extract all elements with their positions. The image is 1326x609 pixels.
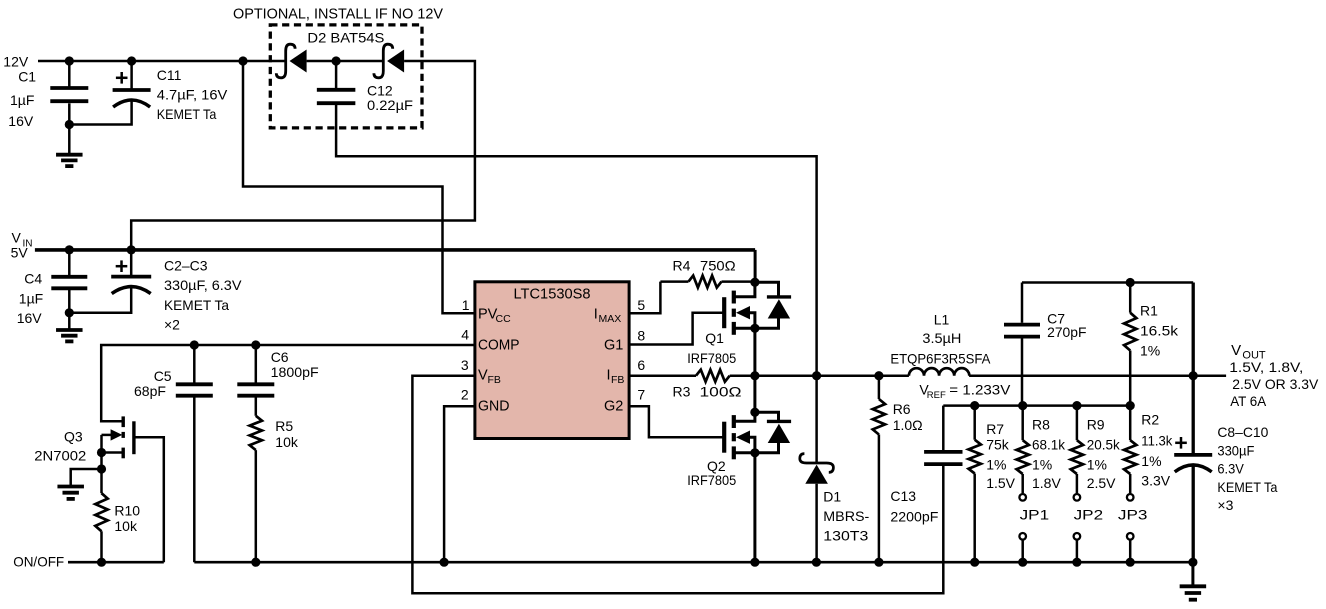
svg-text:11.3k: 11.3k (1141, 433, 1173, 449)
svg-text:1%: 1% (986, 457, 1006, 473)
svg-text:×2: ×2 (164, 317, 180, 333)
svg-text:1%: 1% (1032, 457, 1052, 473)
svg-text:2: 2 (461, 386, 469, 402)
node rail-R5 (251, 558, 260, 567)
svg-text:1.5V: 1.5V (986, 475, 1015, 491)
label LTC1530S8 (514, 287, 591, 303)
label C7 (1047, 311, 1086, 341)
svg-text:OPTIONAL, INSTALL IF NO 12V: OPTIONAL, INSTALL IF NO 12V (233, 7, 443, 23)
label D2 BAT54S (307, 30, 384, 46)
label C2-C3 (164, 258, 242, 333)
capacitor C7 (1004, 283, 1040, 406)
inductor L1 (909, 368, 969, 376)
label Q1 (687, 330, 736, 366)
svg-text:KEMET Ta: KEMET Ta (157, 106, 217, 122)
svg-text:20.5k: 20.5k (1087, 437, 1121, 453)
node switch-Q1Q2 (750, 371, 759, 380)
node 12V-PVcc junction (238, 56, 247, 65)
svg-text:MBRS-: MBRS- (823, 508, 869, 524)
label C6 (271, 349, 319, 380)
svg-text:KEMET Ta: KEMET Ta (1217, 479, 1277, 495)
svg-text:GND: GND (478, 399, 510, 415)
svg-text:FB: FB (488, 374, 501, 386)
label ON/OFF (13, 554, 64, 570)
svg-text:1.8V: 1.8V (1032, 475, 1061, 491)
svg-text:270pF: 270pF (1047, 324, 1086, 340)
svg-text:C2–C3: C2–C3 (164, 258, 208, 274)
pin 7 label (637, 386, 645, 402)
node rail-JP2 (1072, 558, 1081, 567)
wire VIN 5V rail (35, 250, 755, 283)
node VIN-C4 junction (65, 245, 74, 254)
svg-text:R1: R1 (1140, 303, 1158, 319)
svg-text:100Ω: 100Ω (700, 384, 742, 400)
diode D2a (left schottky) (276, 44, 306, 78)
ground under C4 (56, 313, 83, 342)
svg-text:1µF: 1µF (10, 92, 34, 108)
svg-text:1800pF: 1800pF (271, 364, 319, 380)
label R7 (986, 421, 1015, 491)
svg-text:3.3V: 3.3V (1141, 473, 1170, 489)
label C5 (134, 368, 172, 399)
svg-text:R8: R8 (1032, 417, 1050, 433)
svg-text:C8–C10: C8–C10 (1217, 424, 1268, 440)
svg-text:R7: R7 (986, 421, 1004, 437)
capacitor C4 (51, 250, 87, 314)
svg-text:COMP: COMP (478, 338, 520, 354)
wire IFB pin 6 (630, 374, 697, 377)
wire G1 pin 8 (630, 313, 724, 345)
svg-text:1%: 1% (1141, 453, 1161, 469)
wire G2 pin 7 (630, 406, 724, 437)
svg-text:C6: C6 (271, 349, 289, 365)
svg-text:V: V (1231, 342, 1241, 359)
node rail-R6 (874, 558, 883, 567)
wire 12V to PVCC pin 1 (243, 61, 476, 313)
svg-text:I: I (607, 368, 611, 384)
svg-text:I: I (594, 307, 598, 323)
svg-text:1.0Ω: 1.0Ω (893, 417, 923, 433)
node divider-R7 (970, 401, 979, 410)
capacitor C5 (176, 345, 213, 562)
svg-text:16V: 16V (8, 113, 34, 129)
node switch-R6 (874, 371, 883, 380)
svg-text:L1: L1 (934, 312, 950, 328)
svg-text:7: 7 (637, 386, 645, 402)
svg-text:1: 1 (462, 297, 470, 313)
svg-text:2N7002: 2N7002 (34, 448, 86, 464)
node divider-R9 (1072, 401, 1081, 410)
wire Q3 gate to ON/OFF (134, 437, 164, 562)
pin 1 label (462, 297, 470, 313)
label R3 (673, 384, 742, 400)
svg-text:JP2: JP2 (1074, 507, 1104, 523)
svg-text:2.5V OR 3.3V: 2.5V OR 3.3V (1232, 376, 1319, 392)
pin VFB label (478, 368, 501, 387)
resistor R2 with jumper JP3 (1124, 406, 1136, 563)
wire VFB feedback (412, 376, 943, 594)
svg-text:0.22µF: 0.22µF (367, 97, 413, 113)
svg-text:IRF7805: IRF7805 (687, 350, 736, 366)
pin COMP label (478, 338, 520, 354)
wire Q3 source to ground (71, 469, 102, 487)
svg-text:1.5V, 1.8V,: 1.5V, 1.8V, (1229, 359, 1303, 375)
12V input label (3, 54, 29, 70)
label R6 (893, 401, 923, 433)
svg-text:130T3: 130T3 (823, 528, 868, 544)
resistor R10 (95, 493, 107, 562)
wire C7-R1 top line (1022, 281, 1193, 284)
capacitor C11 (polarized) (69, 61, 150, 125)
wire VOUT line (969, 374, 1226, 377)
wire COMP line (101, 345, 475, 421)
node COMP-C5 (190, 340, 199, 349)
label VOUT (1229, 342, 1319, 409)
wire ON/OFF (68, 561, 164, 564)
resistor R5 (250, 416, 262, 562)
svg-text:C1: C1 (18, 69, 36, 85)
node rail-JP3 (1126, 558, 1135, 567)
pin 5 label (637, 297, 645, 313)
label R2 (1141, 412, 1173, 489)
svg-text:4: 4 (461, 327, 469, 343)
pin IMAX label (594, 307, 622, 326)
resistor R9 with jumper JP2 (1071, 406, 1083, 563)
resistor R3 (696, 370, 730, 382)
svg-text:C11: C11 (157, 67, 182, 83)
label R10 (114, 503, 140, 535)
pin 4 label (461, 327, 469, 343)
ground under C1 (56, 125, 83, 167)
transistor Q1 IRF7805 (724, 278, 791, 335)
svg-text:1%: 1% (1140, 343, 1160, 359)
svg-text:4.7µF, 16V: 4.7µF, 16V (157, 87, 228, 103)
capacitor C2-C3 (polarized) (69, 250, 151, 313)
dashed optional box (270, 25, 422, 128)
svg-text:×3: ×3 (1217, 497, 1233, 513)
capacitor C6 (237, 345, 274, 416)
svg-text:75k: 75k (986, 437, 1010, 453)
svg-text:R5: R5 (275, 418, 293, 434)
svg-text:1%: 1% (1087, 457, 1107, 473)
svg-text:330µF: 330µF (1217, 442, 1254, 458)
capacitor C13 (924, 406, 962, 465)
wire switch node (730, 374, 909, 377)
wire IMAX pin 5 (630, 282, 661, 314)
label L1 (890, 312, 991, 367)
svg-text:CC: CC (496, 313, 512, 325)
svg-text:ON/OFF: ON/OFF (13, 554, 64, 570)
svg-text:1µF: 1µF (19, 290, 43, 306)
svg-text:5: 5 (637, 297, 645, 313)
label R4 (673, 258, 736, 274)
node VOUT junction (1189, 371, 1198, 380)
label Q2 (687, 458, 736, 488)
node rail-R7 (970, 558, 979, 567)
svg-text:IRF7805: IRF7805 (687, 472, 736, 488)
node ON/OFF-R10 (97, 558, 106, 567)
pin GND label (478, 399, 510, 415)
svg-text:G2: G2 (604, 399, 623, 415)
svg-text:68pF: 68pF (134, 383, 166, 399)
wire GND pin 2 (444, 406, 475, 562)
capacitor C12 (317, 61, 817, 377)
pin 3 label (461, 357, 469, 373)
label C8-C10 (1217, 424, 1277, 513)
svg-text:2200pF: 2200pF (890, 509, 938, 525)
node rail-JP1 (1018, 558, 1027, 567)
svg-text:6: 6 (637, 357, 645, 373)
svg-text:R2: R2 (1141, 412, 1159, 428)
VIN label (11, 230, 33, 261)
svg-text:2.5V: 2.5V (1087, 475, 1116, 491)
label R9 (1087, 417, 1121, 492)
svg-text:V: V (12, 230, 22, 246)
node Q3 ground junction (97, 464, 106, 473)
label JP1 (1020, 507, 1050, 523)
svg-text:V: V (478, 368, 488, 384)
svg-text:C4: C4 (24, 271, 42, 287)
pin G1 label (604, 338, 623, 354)
svg-text:68.1k: 68.1k (1032, 437, 1066, 453)
pin IFB label (607, 368, 625, 387)
label C13 (890, 488, 938, 525)
ground at rail end (1180, 562, 1207, 600)
svg-text:16V: 16V (17, 310, 43, 326)
svg-text:3: 3 (461, 357, 469, 373)
resistor R8 with jumper JP1 (1017, 406, 1029, 563)
svg-text:FB: FB (611, 374, 624, 386)
pin 2 label (461, 386, 469, 402)
label R8 (1032, 417, 1066, 492)
svg-text:16.5k: 16.5k (1140, 322, 1179, 338)
svg-text:LTC1530S8: LTC1530S8 (514, 287, 591, 303)
label Q3 (34, 429, 86, 464)
label D1 (823, 489, 869, 544)
diode D2b (right schottky) (374, 44, 404, 78)
svg-text:G1: G1 (604, 338, 623, 354)
label C4 (17, 271, 44, 327)
wire 12V rail (38, 61, 475, 249)
wire divider node (943, 404, 1130, 407)
svg-text:8: 8 (637, 327, 645, 343)
label R1 (1140, 303, 1179, 359)
label VREF (919, 382, 1011, 402)
node divider-R8 (1018, 401, 1027, 410)
resistor R1 (1124, 283, 1136, 406)
label C11 (157, 67, 228, 122)
pin 6 label (637, 357, 645, 373)
node D2 midpoint (332, 56, 341, 65)
svg-text:REF: REF (927, 390, 946, 401)
svg-text:R10: R10 (114, 503, 140, 519)
resistor R4 (660, 276, 755, 288)
label JP2 (1074, 507, 1104, 523)
node VIN-C2C3 junction (127, 245, 136, 254)
svg-text:R9: R9 (1087, 417, 1105, 433)
svg-text:JP1: JP1 (1020, 507, 1050, 523)
node C4-C2C3 junction (65, 308, 74, 317)
svg-text:C5: C5 (154, 368, 172, 384)
svg-text:= 1.233V: = 1.233V (949, 382, 1011, 398)
wire ground rail (194, 561, 1193, 564)
svg-text:10k: 10k (275, 434, 299, 450)
node 12V-C1 junction (65, 56, 74, 65)
svg-text:Q1: Q1 (705, 330, 724, 346)
ground at Q3 (57, 487, 83, 499)
capacitor C1 (50, 61, 88, 126)
svg-text:5V: 5V (11, 245, 29, 261)
label OPTIONAL, INSTALL IF NO 12V (233, 7, 443, 23)
svg-text:6.3V: 6.3V (1217, 461, 1244, 477)
svg-text:MAX: MAX (599, 313, 622, 325)
node divider-R2R1 (1126, 401, 1135, 410)
transistor Q2 IRF7805 (724, 408, 791, 460)
svg-text:D2 BAT54S: D2 BAT54S (307, 30, 384, 46)
svg-text:12V: 12V (3, 54, 29, 70)
pin G2 label (604, 399, 623, 415)
svg-text:ETQP6F3R5SFA: ETQP6F3R5SFA (890, 351, 991, 367)
svg-text:C13: C13 (890, 488, 916, 504)
node Q3 source junction (97, 448, 106, 457)
svg-text:R4: R4 (673, 258, 691, 274)
wire VOUT right rail (1192, 283, 1195, 455)
svg-text:R3: R3 (673, 384, 691, 400)
op-amp U1 LTC1530S8 box (475, 282, 629, 439)
svg-text:D1: D1 (823, 489, 841, 505)
svg-text:Q3: Q3 (64, 429, 83, 445)
svg-text:R6: R6 (893, 401, 911, 417)
label R5 (275, 418, 299, 450)
svg-text:330µF, 6.3V: 330µF, 6.3V (164, 277, 242, 293)
node 12V-C11 junction (127, 56, 136, 65)
svg-text:JP3: JP3 (1118, 507, 1148, 523)
node COMP-C6 (251, 340, 260, 349)
resistor R6 (873, 376, 885, 563)
resistor R7 (969, 406, 981, 563)
svg-text:KEMET Ta: KEMET Ta (164, 297, 229, 313)
wire Q2 source to ground rail (753, 453, 756, 562)
node rail-C8 (1188, 558, 1197, 567)
pin PVCC label (478, 307, 511, 326)
node GND pin2 junction (440, 558, 449, 567)
label C1 (8, 69, 36, 130)
node topline-R1 (1126, 278, 1135, 287)
node switch-D1 (812, 371, 821, 380)
svg-text:AT 6A: AT 6A (1230, 393, 1267, 409)
wire Q1 source to switch node (753, 328, 756, 413)
svg-text:750Ω: 750Ω (700, 258, 736, 274)
diode D1 MBRS-130T3 (800, 377, 834, 562)
transistor Q3 2N7002 (102, 416, 134, 493)
node rail-D1 (812, 558, 821, 567)
label JP3 (1118, 507, 1148, 523)
svg-text:10k: 10k (114, 518, 138, 534)
node rail-Q2 (750, 558, 759, 567)
svg-text:3.5µH: 3.5µH (922, 330, 961, 346)
capacitor C8-C10 (polarized) (1174, 437, 1212, 562)
node C1-C11 junction (65, 120, 74, 129)
label C12 (367, 83, 413, 114)
pin 8 label (637, 327, 645, 343)
